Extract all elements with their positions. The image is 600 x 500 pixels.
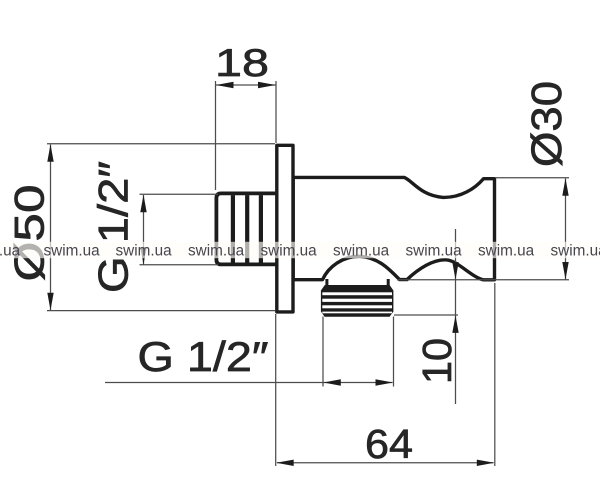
svg-text:swim.ua: swim.ua	[188, 243, 245, 260]
svg-text:swim.ua: swim.ua	[261, 243, 318, 260]
svg-text:swim.ua: swim.ua	[44, 243, 101, 260]
svg-text:10: 10	[414, 338, 460, 384]
svg-text:swim.ua: swim.ua	[333, 243, 390, 260]
svg-text:swim.ua: swim.ua	[551, 243, 600, 260]
svg-text:Ø30: Ø30	[523, 81, 571, 167]
svg-text:G 1/2″: G 1/2″	[90, 161, 137, 293]
svg-text:swim.ua: swim.ua	[116, 243, 173, 260]
svg-text:64: 64	[365, 421, 413, 467]
svg-text:swim.ua: swim.ua	[478, 243, 535, 260]
svg-text:Ø50: Ø50	[6, 185, 53, 282]
svg-text:G 1/2″: G 1/2″	[138, 333, 269, 380]
svg-text:swim.ua: swim.ua	[406, 243, 463, 260]
svg-text:swim.ua: swim.ua	[0, 243, 21, 260]
svg-text:18: 18	[215, 42, 269, 85]
